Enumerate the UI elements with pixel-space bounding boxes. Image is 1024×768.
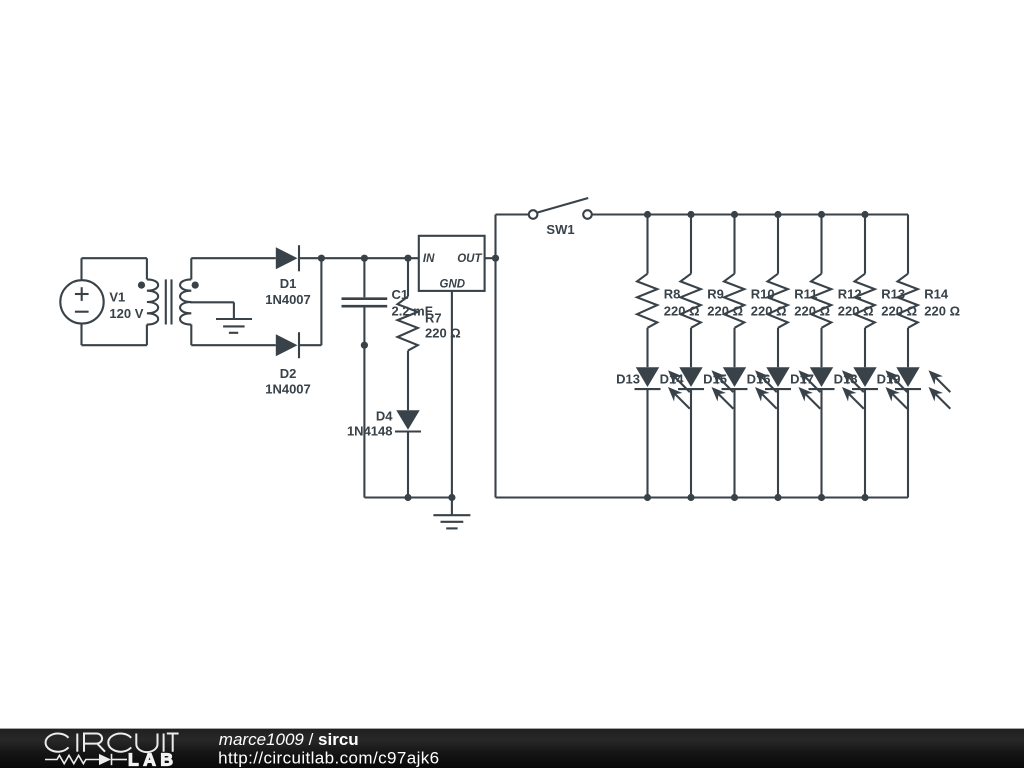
svg-text:1N4007: 1N4007 bbox=[265, 292, 311, 307]
svg-text:D14: D14 bbox=[660, 372, 685, 387]
svg-text:GND: GND bbox=[440, 278, 466, 290]
svg-text:D4: D4 bbox=[376, 409, 393, 424]
svg-text:R7: R7 bbox=[425, 310, 442, 325]
svg-text:IN: IN bbox=[423, 253, 435, 265]
svg-text:R10: R10 bbox=[751, 287, 775, 302]
svg-text:SW1: SW1 bbox=[546, 222, 574, 237]
svg-text:C1: C1 bbox=[392, 287, 409, 302]
svg-text:120 V: 120 V bbox=[109, 306, 143, 321]
svg-text:D16: D16 bbox=[747, 372, 771, 387]
svg-text:220 Ω: 220 Ω bbox=[924, 304, 960, 319]
svg-text:R14: R14 bbox=[924, 287, 949, 302]
svg-text:D1: D1 bbox=[280, 276, 297, 291]
svg-text:1N4148: 1N4148 bbox=[347, 424, 393, 439]
svg-text:R12: R12 bbox=[838, 287, 862, 302]
svg-text:220 Ω: 220 Ω bbox=[707, 304, 743, 319]
svg-text:D19: D19 bbox=[877, 372, 901, 387]
svg-text:R11: R11 bbox=[794, 287, 817, 302]
svg-text:D17: D17 bbox=[790, 372, 814, 387]
svg-text:220 Ω: 220 Ω bbox=[425, 326, 461, 341]
svg-text:220 Ω: 220 Ω bbox=[751, 304, 787, 319]
svg-text:LAB: LAB bbox=[128, 750, 173, 768]
svg-text:220 Ω: 220 Ω bbox=[664, 304, 700, 319]
svg-text:marce1009 / sircu: marce1009 / sircu bbox=[219, 730, 359, 749]
svg-text:R13: R13 bbox=[881, 287, 905, 302]
svg-text:D15: D15 bbox=[703, 372, 727, 387]
svg-text:D18: D18 bbox=[834, 372, 858, 387]
svg-text:V1: V1 bbox=[109, 290, 125, 305]
svg-text:OUT: OUT bbox=[457, 253, 482, 265]
svg-text:1N4007: 1N4007 bbox=[265, 382, 311, 397]
svg-text:220 Ω: 220 Ω bbox=[838, 304, 874, 319]
svg-text:R8: R8 bbox=[664, 287, 681, 302]
svg-text:D13: D13 bbox=[616, 372, 640, 387]
svg-text:220 Ω: 220 Ω bbox=[794, 304, 830, 319]
svg-text:D2: D2 bbox=[280, 366, 297, 381]
svg-text:R9: R9 bbox=[707, 287, 724, 302]
svg-text:http://circuitlab.com/c97ajk6: http://circuitlab.com/c97ajk6 bbox=[218, 748, 439, 767]
svg-text:220 Ω: 220 Ω bbox=[881, 304, 917, 319]
